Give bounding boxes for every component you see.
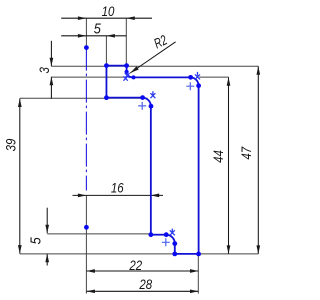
dim 44 line [228,77,230,254]
fillet middle [142,98,150,107]
dim 44 top arrow [227,77,231,86]
x mark F1 a [125,73,130,78]
dim 28 line [86,290,198,292]
plus F3 [138,102,146,110]
dim 10 right arrow [126,16,135,20]
dim 44 bottom arrow [227,245,231,254]
x mark F4 [170,229,175,236]
arrowheads (black) [18,16,260,293]
svg-text:47: 47 [238,146,254,160]
x mark F2 [195,72,200,80]
svg-text:5: 5 [27,237,44,244]
dim 39 top arrow [18,99,22,108]
leader R2 [130,42,175,73]
dim 10 left arrow [78,16,87,20]
long top edge [132,76,190,78]
dim 5 right arrow [106,34,115,38]
dim 28 right arrow [190,289,199,293]
dim 5 lower upper seg [46,208,48,234]
dim 5 lower bottom arrow [45,254,49,262]
small bottom vertical [174,244,176,254]
dim 22 right arrow [190,269,199,273]
svg-text:3: 3 [36,67,52,73]
ext line 44 top right [199,76,228,78]
dim 3 line upper seg [50,41,52,66]
ext vertical left profile edge x=106.4 [105,36,107,66]
fillet bottom [166,235,175,244]
step right vertical [126,66,128,72]
svg-text:28: 28 [138,276,152,292]
dim 5 lower bottom seg [46,254,48,266]
fillet top right [191,77,199,85]
dim 3 bottom arrow [50,77,54,86]
dim 3 line lower seg [50,77,52,99]
tangency x marks (blue) [123,72,200,235]
ext line 5 lower top y=234 [47,233,151,235]
dimension texts [2,3,254,293]
dim 16 line [73,194,164,196]
dim 16 left arrow [78,194,87,198]
middle vertical edge [150,106,152,235]
dim 5 lower top arrow [45,225,49,234]
dim 22 left arrow [86,269,95,273]
vertex dots (blue) [84,45,201,256]
svg-text:16: 16 [111,179,125,195]
dim 47 top arrow [256,66,260,75]
svg-text:5: 5 [94,19,101,36]
x mark F3 [150,91,155,98]
right vertical edge [198,86,200,254]
dim 22 line [86,270,198,272]
ext line 39 top y=98 [20,97,148,99]
ext line bottom y=254 [20,253,258,255]
lower step edge [151,234,166,236]
dim 5 line [61,35,126,37]
x mark F1 b [123,76,127,80]
svg-text:44: 44 [210,150,226,163]
dim 47 bottom arrow [256,245,260,254]
fillet R2 step [127,72,133,78]
fillet center plus marks (light blue) [138,82,194,246]
extension lines (gray) [20,18,258,293]
lower-left step edge [106,97,142,99]
ext vertical centerline bottom x=86.4 [85,195,87,293]
plus F4 [162,238,170,246]
dim 39 line [19,99,21,254]
left vertical edge [105,66,107,98]
dim 47 line [257,66,259,254]
dim 28 left arrow [86,289,95,293]
ext line step bottom y=77 left [51,76,125,78]
ext vertical centerline top x=86.4 [85,18,87,47]
dimension lines (black) [20,18,258,291]
svg-text:39: 39 [2,139,18,152]
dim 10 line [61,17,152,19]
ext vertical right profile x=198.3 [197,254,199,294]
top edge [106,65,126,67]
blue profile [106,66,198,254]
dim 39 bottom arrow [18,245,22,254]
bottom edge [175,253,199,255]
ext vertical step right x=126.3 [125,18,127,65]
dim 3 top arrow [50,58,54,66]
svg-text:22: 22 [128,257,142,273]
dim 5 left arrow [78,34,87,38]
svg-text:10: 10 [102,3,116,19]
centerline (blue dash-dot) [85,48,87,191]
ext line top edge y=66 [51,65,258,67]
dim 16 right arrow [151,194,160,198]
plus F2 [186,82,194,90]
leader R2 arrow [130,66,139,73]
